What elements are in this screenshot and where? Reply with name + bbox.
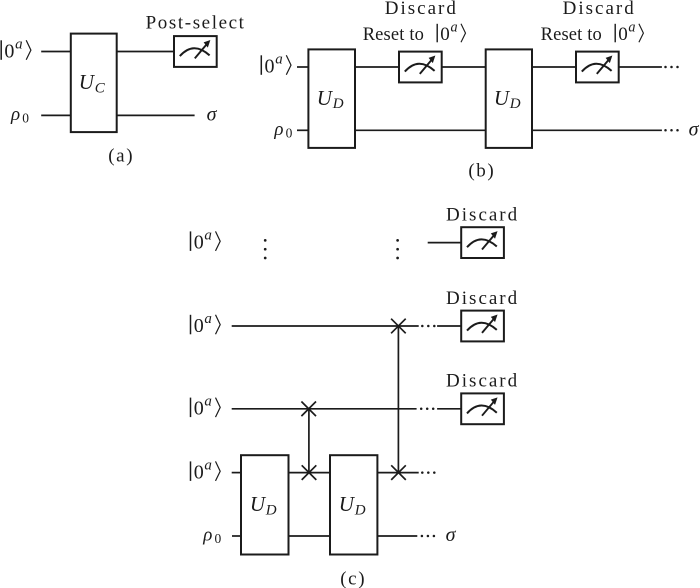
svg-text:0: 0 <box>22 111 29 126</box>
wire <box>437 408 461 410</box>
svg-text:0: 0 <box>194 398 204 420</box>
wire <box>232 408 417 410</box>
swap cross X3 (wire4 left) <box>302 465 317 480</box>
label Reset to |0^a> 2 (b) <box>541 19 644 45</box>
swap vertical line 1 (wire3-wire4) <box>308 409 310 473</box>
ellipsis dots wire4 (c) <box>421 471 436 474</box>
wire <box>377 472 418 474</box>
svg-text:U: U <box>339 492 356 516</box>
svg-text:Reset to: Reset to <box>541 25 602 45</box>
measurement meter M6 (discard low) <box>461 393 504 424</box>
ket label |0^a> wire 4 (c) <box>191 457 221 483</box>
svg-text:U: U <box>494 86 511 110</box>
ellipsis dots top rail (b) <box>664 66 679 69</box>
svg-text:Discard: Discard <box>446 204 519 225</box>
wire <box>232 325 399 327</box>
label sigma output (b) <box>689 119 700 141</box>
svg-text:D: D <box>354 503 366 519</box>
svg-text:(c): (c) <box>340 569 366 588</box>
wire <box>355 66 399 68</box>
swap cross X1 (wire2) <box>391 319 406 334</box>
swap cross X4 (wire4 right) <box>391 465 406 480</box>
svg-text:ρ: ρ <box>273 119 283 140</box>
swap vertical line 2 (wire2-wire4) <box>397 326 399 473</box>
wire <box>41 114 71 116</box>
svg-text:Post-select: Post-select <box>146 13 246 34</box>
label rho_0 input (c) <box>202 525 221 547</box>
label sigma output (c) <box>446 524 457 546</box>
svg-text:a: a <box>628 19 635 35</box>
unitary box U_D 1 (b) <box>308 49 355 147</box>
wire <box>532 129 662 131</box>
svg-text:Reset to: Reset to <box>363 25 424 45</box>
svg-text:ρ: ρ <box>202 525 212 546</box>
wire <box>41 51 71 53</box>
ket label |0^a> wire 1 (c) <box>191 227 221 253</box>
vertical dots right (c) <box>396 239 399 259</box>
svg-text:(b): (b) <box>468 161 495 182</box>
svg-text:D: D <box>509 96 521 112</box>
svg-text:0: 0 <box>440 24 450 45</box>
label Reset to |0^a> 1 (b) <box>363 19 466 45</box>
wire <box>297 66 308 68</box>
svg-text:σ: σ <box>446 524 457 546</box>
ket label |0^a> input (b) <box>261 51 291 77</box>
wire <box>289 535 331 537</box>
svg-text:C: C <box>95 81 106 97</box>
measurement meter M5 (discard mid) <box>461 311 504 342</box>
svg-text:Discard: Discard <box>446 288 519 309</box>
measurement meter M4 (discard top) <box>461 227 504 258</box>
svg-text:0: 0 <box>618 24 628 45</box>
ellipsis dots wire5 (c) <box>421 535 436 538</box>
swap cross X2 (wire3) <box>301 402 316 417</box>
svg-text:0: 0 <box>4 40 14 62</box>
svg-text:σ: σ <box>207 104 218 126</box>
caption (c) <box>340 569 366 588</box>
svg-text:a: a <box>451 19 458 35</box>
vertical dots left (c) <box>264 239 267 259</box>
unitary box U_C <box>71 34 117 133</box>
label Discard 1 (b) <box>385 0 458 19</box>
label sigma output (a) <box>207 104 218 126</box>
wire <box>117 51 174 53</box>
wire <box>428 242 462 244</box>
svg-text:ρ: ρ <box>10 104 20 125</box>
wire <box>619 66 662 68</box>
wire <box>355 129 486 131</box>
label rho_0 input (a) <box>10 104 29 126</box>
ket label |0^a> wire 3 (c) <box>191 394 221 420</box>
svg-text:Discard: Discard <box>563 0 636 19</box>
svg-text:a: a <box>15 36 23 52</box>
svg-text:Discard: Discard <box>385 0 458 19</box>
wire <box>532 66 576 68</box>
svg-text:a: a <box>204 457 212 473</box>
svg-text:0: 0 <box>215 531 222 546</box>
label Discard 1 (c) <box>446 204 519 225</box>
svg-text:a: a <box>204 311 212 327</box>
wire <box>437 325 461 327</box>
ket label |0^a> input (a) <box>1 36 31 62</box>
svg-text:a: a <box>204 227 212 243</box>
ellipsis dots wire3 (c) <box>420 408 435 411</box>
svg-text:U: U <box>317 86 334 110</box>
wire <box>289 472 331 474</box>
ellipsis dots bottom rail (b) <box>664 129 679 132</box>
svg-text:(a): (a) <box>108 146 134 167</box>
svg-text:σ: σ <box>689 119 700 141</box>
svg-text:U: U <box>250 492 267 516</box>
ellipsis dots wire2 (c) <box>421 325 436 328</box>
svg-text:D: D <box>332 96 344 112</box>
caption (b) <box>468 161 495 182</box>
wire <box>117 114 195 116</box>
svg-text:a: a <box>204 394 212 410</box>
unitary box U_D 1 (c) <box>241 455 289 554</box>
wire <box>398 325 418 327</box>
wire <box>232 472 241 474</box>
label Discard 3 (c) <box>446 371 519 392</box>
svg-text:0: 0 <box>265 55 275 77</box>
label Discard 2 (b) <box>563 0 636 19</box>
unitary box U_D 2 (b) <box>486 49 532 147</box>
label Discard 2 (c) <box>446 288 519 309</box>
svg-text:0: 0 <box>194 461 204 483</box>
svg-text:0: 0 <box>194 315 204 337</box>
label rho_0 input (b) <box>273 119 292 141</box>
svg-text:U: U <box>79 70 96 94</box>
measurement meter M2 (discard-reset 1) <box>399 52 442 83</box>
wire <box>442 66 486 68</box>
svg-text:a: a <box>275 51 283 67</box>
label Post-select <box>146 13 246 34</box>
wire <box>377 535 417 537</box>
svg-text:0: 0 <box>194 231 204 253</box>
unitary box U_D 2 (c) <box>330 455 377 554</box>
wire <box>232 535 241 537</box>
caption (a) <box>108 146 134 167</box>
svg-text:Discard: Discard <box>446 371 519 392</box>
svg-text:D: D <box>265 503 277 519</box>
wire <box>297 129 308 131</box>
ket label |0^a> wire 2 (c) <box>191 311 221 337</box>
svg-text:0: 0 <box>286 126 293 141</box>
measurement meter M1 (post-select) <box>174 36 217 67</box>
measurement meter M3 (discard-reset 2) <box>576 52 619 83</box>
